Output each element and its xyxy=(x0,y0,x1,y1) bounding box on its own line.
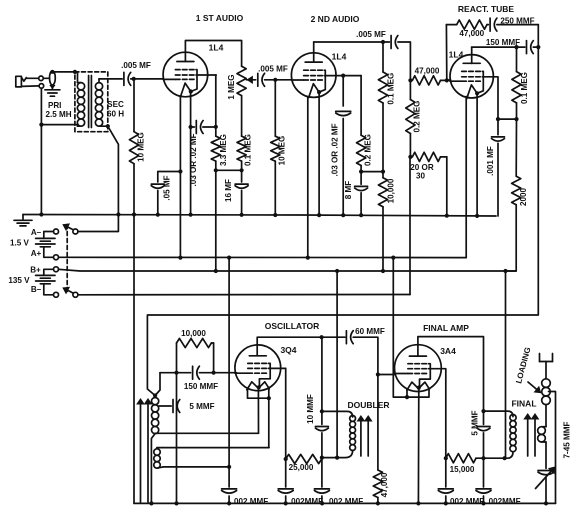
transformer core xyxy=(89,76,92,128)
capacitor 5 MMF (final) xyxy=(477,411,490,458)
label 0.1 MEG (1) xyxy=(244,134,253,166)
svg-text:2.5 MH: 2.5 MH xyxy=(45,110,71,119)
svg-text:2000: 2000 xyxy=(519,188,528,207)
wire grid line to tank top xyxy=(153,373,160,398)
node transformer corner xyxy=(73,70,77,74)
screen wire U3 down xyxy=(493,77,500,121)
label .001 MF xyxy=(486,146,495,176)
label 3.3 MEG xyxy=(219,134,228,166)
tube U1 1L4 (1st audio) xyxy=(163,52,208,97)
capacitor 10 MMF xyxy=(315,411,328,459)
svg-text:0.2 MEG: 0.2 MEG xyxy=(413,101,422,133)
svg-text:5 MMF: 5 MMF xyxy=(189,402,214,411)
filament right leg U2 to ground bus xyxy=(318,92,320,215)
filament right leg U1 to ground bus xyxy=(189,92,193,215)
ground (mic) xyxy=(45,90,60,96)
wire B- riser to react junction xyxy=(409,157,411,295)
svg-text:10,000: 10,000 xyxy=(386,178,395,203)
tube U5 3A4 (final amp) xyxy=(395,345,442,392)
wire osc filament center-tap down xyxy=(257,387,259,433)
transformer shield box (dashed) xyxy=(75,72,108,132)
resistor 10,000 (plate load) xyxy=(378,172,387,271)
label 3Q4 xyxy=(280,345,296,355)
label 47,000 (feedback) xyxy=(459,29,484,38)
label 150 MMF (osc) xyxy=(184,382,218,391)
wire screen node link 2 xyxy=(361,170,385,174)
svg-text:10 MMF: 10 MMF xyxy=(306,394,315,424)
svg-text:B–: B– xyxy=(31,285,42,294)
svg-text:3.3 MEG: 3.3 MEG xyxy=(219,134,228,166)
doubler tank top wire xyxy=(322,411,353,417)
svg-text:7-45 MMF: 7-45 MMF xyxy=(562,422,571,459)
label 0.2 MEG (1) xyxy=(364,134,373,166)
resistor 0.2 MEG (2) xyxy=(406,80,415,159)
label A+ xyxy=(31,249,42,258)
wire jack sleeve down to ground bus xyxy=(40,88,42,214)
resistor 20 OR 30 (filament) xyxy=(412,152,446,215)
wire A+ branch to tickler xyxy=(228,258,230,467)
label 1.5 V xyxy=(10,238,30,247)
svg-text:.002 MMF: .002 MMF xyxy=(232,497,268,506)
svg-text:1 ST AUDIO: 1 ST AUDIO xyxy=(196,13,244,23)
wire osc plate down to doubler xyxy=(320,337,324,413)
label 1L4 (2) xyxy=(332,52,347,62)
capacitor .002 MMF (2) xyxy=(278,459,293,503)
label 250 MMF xyxy=(500,17,534,26)
svg-text:B+: B+ xyxy=(30,265,41,274)
svg-text:25,000: 25,000 xyxy=(289,463,314,472)
capacitor .002 MMF (1) xyxy=(222,467,237,504)
filament left leg U3 to A+ xyxy=(465,97,467,258)
wire 60MMF to final grid xyxy=(353,337,380,376)
resistor 0.2 MEG (screen 2) xyxy=(357,76,366,174)
label LOADING xyxy=(514,346,532,384)
svg-text:3A4: 3A4 xyxy=(440,346,456,356)
wire final filament to bus xyxy=(417,387,419,503)
resistor 10 MEG (grid leak 2) xyxy=(271,80,280,215)
label .005 MF (3) xyxy=(356,30,386,39)
label 10 MEG (1) xyxy=(137,132,146,162)
label FINAL AMP xyxy=(423,323,469,333)
label 25,000 xyxy=(289,463,314,472)
svg-text:.001 MF: .001 MF xyxy=(486,146,495,176)
resistor 10,000 (osc grid leak) xyxy=(174,338,215,374)
trimmer capacitor 7-45 MMF xyxy=(536,466,556,503)
label 0.1 MEG (2) xyxy=(387,73,396,105)
wire B+ to final tank xyxy=(505,271,507,458)
wire primary bottom return xyxy=(39,123,77,127)
capacitor .002 MMF (3) xyxy=(314,458,329,504)
resistor 0.1 MEG (1) xyxy=(237,136,246,172)
tickler top wire xyxy=(163,447,269,449)
svg-text:.05 MF: .05 MF xyxy=(163,175,172,200)
loading tap arrow xyxy=(528,382,541,393)
wire battery to A+ xyxy=(44,247,54,257)
doubler node to B+ xyxy=(335,271,339,460)
wire cap3 to grid stop xyxy=(398,42,413,83)
capacitor .001 MF xyxy=(492,119,505,216)
microphone element xyxy=(49,70,55,90)
label A- xyxy=(31,228,42,237)
wire loading coil to link coil xyxy=(545,405,547,427)
svg-text:1.5 V: 1.5 V xyxy=(10,238,30,247)
capacitor .002 MMF (5) xyxy=(476,458,491,503)
wire 10,000-left line down to bus xyxy=(176,373,178,504)
svg-text:47,000: 47,000 xyxy=(380,472,389,497)
wire A- to battery xyxy=(44,232,54,239)
svg-text:150 MMF: 150 MMF xyxy=(184,382,218,391)
wire divider link xyxy=(216,169,242,171)
capacitor .03 OR .02 MF (2) xyxy=(336,76,351,216)
ground bus junction dots xyxy=(39,212,479,218)
svg-text:47,000: 47,000 xyxy=(459,29,484,38)
input jack plug xyxy=(16,76,26,87)
label .005 MF (2) xyxy=(258,65,288,74)
svg-text:10,000: 10,000 xyxy=(181,329,206,338)
label 10 MEG (2) xyxy=(277,136,286,166)
svg-text:.005 MF: .005 MF xyxy=(258,65,288,74)
svg-text:10 MEG: 10 MEG xyxy=(277,136,286,166)
svg-text:PRI: PRI xyxy=(48,101,62,110)
label 47,000 (final) xyxy=(380,472,389,497)
svg-text:A+: A+ xyxy=(31,249,42,258)
antenna link coil xyxy=(538,427,546,442)
oscillator tank coil xyxy=(151,398,158,504)
wire ground bus to RF return loop xyxy=(133,215,135,504)
label 7-45 MMF xyxy=(562,422,571,459)
label .005 MF (input) xyxy=(121,61,151,70)
wire react grid xyxy=(447,79,451,82)
label 8 MF xyxy=(344,181,353,199)
label 2.5MH xyxy=(45,110,71,119)
B- supply row xyxy=(78,294,410,296)
tickler bottom wire xyxy=(163,465,231,469)
label 15,000 xyxy=(450,465,475,474)
svg-text:60 H: 60 H xyxy=(107,110,124,119)
final tank coil xyxy=(510,415,516,452)
label OSCILLATOR xyxy=(265,321,319,331)
svg-text:.03 OR .02 MF: .03 OR .02 MF xyxy=(189,133,198,186)
label 5 MMF (final) xyxy=(470,410,479,435)
final tank top wire xyxy=(484,411,514,417)
svg-text:FINAL AMP: FINAL AMP xyxy=(423,323,469,333)
wire mic to transformer primary xyxy=(52,71,77,73)
resistor 0.1 MEG (react) xyxy=(512,45,521,121)
resistor 25,000 xyxy=(286,454,322,463)
wire 150MMF to feedback node xyxy=(533,45,540,49)
svg-text:SEC: SEC xyxy=(107,100,124,109)
switch A- contacts xyxy=(54,229,78,234)
label 30 xyxy=(416,172,426,181)
jack contact (sleeve) xyxy=(39,84,44,89)
svg-text:16 MF: 16 MF xyxy=(224,179,233,202)
svg-text:1L4: 1L4 xyxy=(332,52,347,62)
label 150 MMF xyxy=(486,38,520,47)
terminal A+ xyxy=(54,255,59,260)
wire cap to 1L4 grid xyxy=(131,77,164,81)
jack contact (tip) xyxy=(39,76,44,81)
doubler coil xyxy=(350,416,356,451)
wire A+ branch to final filament xyxy=(393,258,407,398)
capacitor .05 MF (filament bypass) xyxy=(151,169,182,214)
filament right leg U3 to ground bus xyxy=(476,93,478,216)
terminal B+ xyxy=(54,267,59,272)
switch B- contacts xyxy=(54,292,78,297)
svg-text:.002 MMF: .002 MMF xyxy=(327,497,363,506)
capacitor 250 MMF xyxy=(487,18,538,31)
svg-text:A–: A– xyxy=(31,228,42,237)
label FINAL xyxy=(511,399,536,409)
label 16 MF xyxy=(224,179,233,202)
wire secondary bottom to ground bus xyxy=(105,124,119,214)
label 1L4 (3) xyxy=(449,50,464,60)
switch gang link (dashed) xyxy=(66,225,68,294)
wire link coil to trimmer xyxy=(545,442,547,468)
label 135 V xyxy=(8,276,30,285)
battery 1.5V xyxy=(36,238,55,246)
tube U4 3Q4 (oscillator) xyxy=(235,345,281,391)
ground (bus left end) xyxy=(14,215,32,226)
svg-text:.005 MF: .005 MF xyxy=(356,30,386,39)
wire secondary to cap xyxy=(99,78,122,80)
svg-text:5 MMF: 5 MMF xyxy=(470,410,479,435)
svg-text:.005 MF: .005 MF xyxy=(121,61,151,70)
label SEC xyxy=(107,100,124,109)
label 10,000 (plate) xyxy=(386,178,395,203)
resistor 47,000 (final grid leak) xyxy=(373,375,382,504)
capacitor .005 MF (3) xyxy=(391,36,398,49)
svg-text:.002 MMF: .002 MMF xyxy=(448,497,484,506)
wire react screen link xyxy=(498,118,517,120)
resistor 2000 xyxy=(506,119,521,271)
label B+ xyxy=(30,265,41,274)
label .03 OR .02 MF (2) xyxy=(330,123,339,176)
final tank bottom wire xyxy=(505,452,513,459)
resistor 10 MEG (grid leak 1) xyxy=(129,79,138,215)
tank tuning arrows xyxy=(136,398,152,502)
capacitor 8 MF xyxy=(355,172,368,216)
final screen wire down xyxy=(441,369,448,461)
svg-text:.03 OR .02 MF: .03 OR .02 MF xyxy=(330,123,339,176)
svg-text:3Q4: 3Q4 xyxy=(280,345,296,355)
tube U3 1L4 (reactance) xyxy=(450,55,493,99)
svg-text:15,000: 15,000 xyxy=(450,465,475,474)
svg-text:FINAL: FINAL xyxy=(511,399,536,409)
wire 15,000 to tank node xyxy=(476,456,507,460)
svg-text:47,000: 47,000 xyxy=(415,67,440,76)
wire screen node to B+ row xyxy=(215,170,217,271)
wire B+ to battery xyxy=(44,269,54,275)
switch B- blade xyxy=(62,287,73,295)
capacitor .002 MMF (4) xyxy=(438,458,453,503)
label 1 MEG xyxy=(227,74,236,99)
final filament yoke xyxy=(405,390,429,400)
svg-text:OSCILLATOR: OSCILLATOR xyxy=(265,321,319,331)
final plate wire xyxy=(418,337,486,414)
wire osc yoke down to tickler xyxy=(268,398,270,447)
svg-text:60 MMF: 60 MMF xyxy=(355,327,385,336)
label .002 MMF (2) xyxy=(289,497,323,506)
wire plug sleeve to jack contact xyxy=(22,85,40,88)
label .002 MMF (3) xyxy=(327,497,363,506)
filament left leg U2 to A+ line xyxy=(307,97,309,257)
label 1L4 (1) xyxy=(209,43,224,53)
label .002 MMF (1) xyxy=(232,497,268,506)
svg-text:30: 30 xyxy=(416,172,426,181)
osc filament yoke xyxy=(248,389,271,400)
capacitor 150 MMF (osc grid) xyxy=(193,366,200,379)
potentiometer 1 MEG (volume) xyxy=(237,66,256,136)
B+ supply row xyxy=(59,269,517,273)
label 5 MMF (osc) xyxy=(189,402,214,411)
A+ supply row xyxy=(59,256,467,260)
loading coil xyxy=(542,379,551,405)
capacitor 5 MMF (osc) xyxy=(159,400,180,413)
svg-text:.002MMF: .002MMF xyxy=(289,497,323,506)
resistor 3.3 MEG xyxy=(211,127,220,173)
capacitor 60 MMF xyxy=(346,331,353,344)
wire plate U1 up and to volume pot xyxy=(185,41,241,67)
doubler coil bottom wire xyxy=(322,451,353,458)
svg-text:REACT. TUBE: REACT. TUBE xyxy=(458,4,515,14)
label 60 MMF xyxy=(355,327,385,336)
wire feedback node down to osc link xyxy=(147,25,538,396)
resistor 47,000 (grid stop) xyxy=(412,76,449,85)
label .002 MMF (4) xyxy=(448,497,484,506)
wire tip contact to mic element xyxy=(43,77,49,79)
transformer primary winding PRI 2.5MH xyxy=(77,72,84,126)
capacitor .005 MF (2) xyxy=(258,73,265,86)
label 0.2 MEG (2) xyxy=(413,101,422,133)
label 0.1 MEG (react) xyxy=(520,72,529,104)
resistor 47,000 (feedback) xyxy=(457,20,487,29)
wire battery to B- xyxy=(44,284,54,295)
label 47,000 (grid) xyxy=(415,67,440,76)
svg-text:0.1 MEG: 0.1 MEG xyxy=(520,72,529,104)
capacitor 16 MF xyxy=(235,170,248,215)
svg-text:8 MF: 8 MF xyxy=(344,181,353,199)
feedback loop left xyxy=(446,25,456,81)
capacitor 150 MMF xyxy=(527,41,534,54)
label .05 MF xyxy=(163,175,172,200)
resistor 0.1 MEG (2) xyxy=(378,42,387,172)
svg-text:0.1 MEG: 0.1 MEG xyxy=(244,134,253,166)
label 2000 xyxy=(519,188,528,207)
antenna xyxy=(540,354,553,379)
screen wire U2 xyxy=(336,74,361,78)
tube U2 1L4 (2nd audio) xyxy=(291,53,336,98)
label .03 OR .02 MF (1) xyxy=(189,133,198,186)
osc grid wire xyxy=(160,372,237,374)
tickler coil xyxy=(154,448,163,469)
resistor 15,000 xyxy=(446,454,476,463)
svg-text:0.2 MEG: 0.2 MEG xyxy=(364,134,373,166)
label PRI xyxy=(48,101,62,110)
label 3A4 xyxy=(440,346,456,356)
final grid wire xyxy=(378,374,395,376)
label 2ND AUDIO xyxy=(311,14,360,24)
svg-text:DOUBLER: DOUBLER xyxy=(347,400,389,410)
svg-text:135 V: 135 V xyxy=(8,276,30,285)
wire plug tip to jack contact xyxy=(26,77,38,79)
RF bottom bus xyxy=(134,501,556,505)
svg-text:0.1 MEG: 0.1 MEG xyxy=(387,73,396,105)
wire tank bottom to filament tap xyxy=(155,432,258,434)
label 1ST AUDIO xyxy=(196,13,244,23)
svg-text:1L4: 1L4 xyxy=(449,50,464,60)
label REACT. TUBE xyxy=(458,4,515,14)
final tuning arrows xyxy=(523,413,539,456)
label 10 MMF xyxy=(306,394,315,424)
label DOUBLER xyxy=(347,400,389,410)
wire cap2 to 2L4 grid xyxy=(265,78,292,82)
filament left leg U1 to A+ line xyxy=(179,97,181,258)
ground bus wire xyxy=(23,215,496,217)
label 60H xyxy=(107,110,124,119)
svg-text:1 MEG: 1 MEG xyxy=(227,74,236,99)
svg-text:250 MMF: 250 MMF xyxy=(500,17,534,26)
label 20 OR xyxy=(410,163,434,172)
wire react plate xyxy=(472,47,525,63)
svg-text:2 ND AUDIO: 2 ND AUDIO xyxy=(311,14,360,24)
label .002 MMF (5) xyxy=(486,497,520,506)
label B- xyxy=(31,285,42,294)
svg-text:.002MMF: .002MMF xyxy=(486,497,520,506)
doubler tuning arrows xyxy=(357,415,373,456)
osc plate wire xyxy=(257,335,345,356)
wire loading tap to bus end xyxy=(549,392,556,504)
svg-text:1L4: 1L4 xyxy=(209,43,224,53)
capacitor .03 OR .02 MF (1) xyxy=(191,121,216,134)
capacitor .005 MF (input) xyxy=(124,72,131,85)
wire plate U2 to cap3 xyxy=(314,40,390,62)
screen wire U1 down xyxy=(208,75,218,129)
switch A- blade xyxy=(62,223,73,231)
transformer secondary winding SEC 60H xyxy=(95,79,104,126)
osc screen wire down xyxy=(281,368,288,461)
wire switch A- to ground bus xyxy=(78,215,119,232)
battery 135V xyxy=(36,275,55,283)
label 10,000 (osc) xyxy=(181,329,206,338)
svg-text:10 MEG: 10 MEG xyxy=(137,132,146,162)
